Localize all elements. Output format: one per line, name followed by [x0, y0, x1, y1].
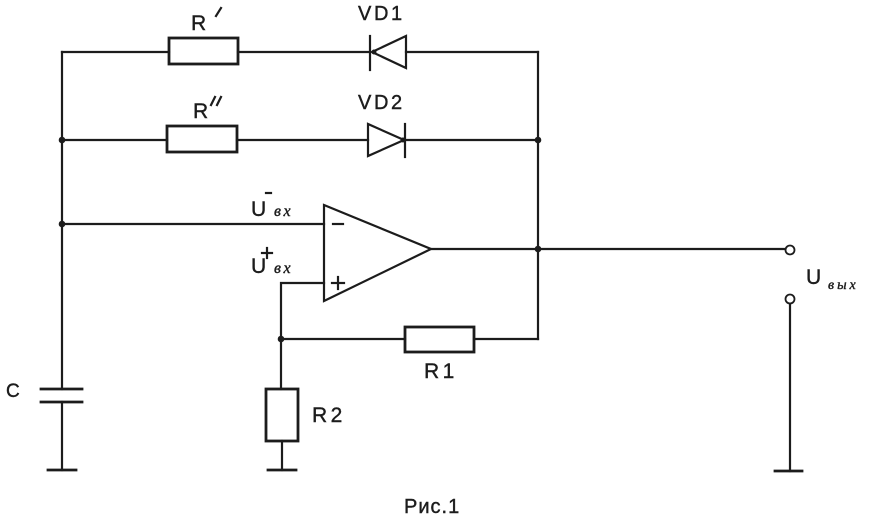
svg-text:R: R — [193, 100, 208, 123]
label U vyx — [806, 266, 859, 293]
svg-text:R2: R2 — [312, 404, 346, 427]
wire second rail left segment — [62, 139, 167, 141]
wire R1 to right bus — [474, 338, 538, 340]
svg-text:R: R — [191, 12, 206, 35]
wire right vertical bus — [537, 52, 539, 339]
resistor R1 — [405, 327, 474, 352]
wire left vertical bus — [61, 52, 63, 389]
svg-text:Рис.1: Рис.1 — [404, 496, 460, 518]
svg-text:C: C — [6, 381, 20, 402]
wire VD2 to right bus — [405, 139, 538, 141]
wire junction to R1 — [281, 338, 405, 340]
svg-text:U: U — [806, 266, 821, 289]
node VD1 anode junction — [372, 50, 377, 55]
wire R2 to ground — [281, 441, 283, 470]
ground capacitor — [48, 469, 76, 472]
svg-text:VD2: VD2 — [358, 92, 405, 114]
wire junction to R2 — [280, 339, 282, 389]
terminal output lower — [786, 295, 795, 304]
diode VD2 — [368, 124, 405, 157]
node left bus junction upper — [59, 137, 66, 144]
svg-text:U: U — [251, 198, 266, 221]
wire op-amp output — [431, 248, 785, 250]
label op-amp minus input — [333, 223, 343, 225]
node right bus output junction — [535, 246, 542, 253]
svg-text:вх: вх — [274, 203, 293, 220]
wire top rail left segment — [62, 51, 169, 53]
wire R' to VD1 — [238, 51, 370, 53]
svg-text:U: U — [251, 255, 266, 278]
resistor R' — [169, 38, 238, 64]
resistor R2 — [266, 389, 298, 441]
wire capacitor to ground — [61, 402, 63, 470]
ground right — [775, 470, 802, 473]
wire inverting input — [62, 223, 324, 225]
svg-text:R1: R1 — [424, 360, 458, 383]
node feedback junction — [278, 336, 285, 343]
svg-text:вых: вых — [828, 278, 859, 293]
label U+vx — [251, 248, 293, 278]
node right bus upper junction — [535, 137, 542, 144]
svg-text:VD1: VD1 — [358, 3, 405, 25]
svg-text:вх: вх — [274, 260, 293, 277]
wire non-inverting input — [281, 283, 324, 339]
ground R2 — [268, 469, 296, 472]
node left bus junction lower — [59, 221, 66, 228]
wire R'' to VD2 — [237, 139, 368, 141]
node VD2 cathode junction — [401, 138, 406, 143]
wire VD1 to right bus — [406, 51, 538, 53]
resistor R'' — [167, 126, 237, 152]
label op-amp plus input — [332, 277, 344, 289]
wire lower terminal to ground — [789, 304, 791, 471]
label U-vx — [251, 193, 293, 221]
diode VD1 — [370, 36, 406, 70]
capacitor C — [41, 389, 82, 402]
op-amp U1 — [324, 205, 431, 301]
terminal output upper — [786, 246, 795, 255]
